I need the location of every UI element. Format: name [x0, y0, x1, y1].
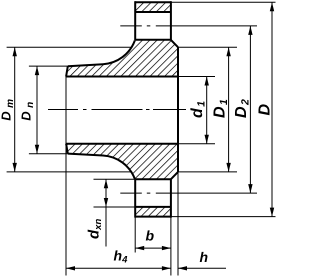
- disc right face lower: [170, 179, 172, 217]
- svg-text:D: D: [257, 104, 274, 116]
- bolt hole top axis dash-dot: [120, 25, 257, 27]
- flange outer edge top: [135, 1, 171, 3]
- Dn extension line top: [29, 65, 68, 67]
- bolt hole bottom: upper edge: [135, 178, 171, 180]
- dimension line Dm: [14, 47, 16, 172]
- arrow Dm down: [13, 163, 17, 172]
- hub weld-end bevel bottom: [66, 144, 68, 154]
- dxn extension line top: [94, 178, 136, 180]
- arrow h4 left: [66, 266, 75, 270]
- arrow h (outside, pointing left): [178, 266, 187, 270]
- bolt hole bottom axis dash-dot: [120, 192, 257, 194]
- arrow D2 down: [248, 184, 252, 193]
- arrow D1 down: [226, 163, 230, 172]
- arrow Dm up: [13, 47, 17, 56]
- arrow Dn down: [35, 145, 39, 154]
- hatch: lower hub/disc section zone: [66, 144, 178, 180]
- dimension line h tail: [178, 267, 226, 269]
- h right extension line: [177, 172, 179, 276]
- raised face chamfer top: [171, 40, 178, 47]
- hatch: top rim band between flange OD and bolt hole: [135, 2, 171, 12]
- Dn extension line bottom: [29, 153, 68, 155]
- bolt hole top: lower edge: [135, 39, 171, 41]
- dimension line Dn: [36, 66, 38, 154]
- D1 extension line bottom: [178, 171, 237, 173]
- raised face chamfer bottom: [171, 172, 178, 179]
- dimension line dxn: [105, 179, 107, 246]
- d1 extension line bottom: [178, 143, 215, 145]
- h4 right / b right extension line: [170, 217, 172, 276]
- arrow d1 up: [205, 77, 209, 86]
- hub outer surface bottom + fillet to disc: [68, 154, 135, 180]
- D extension line bottom: [171, 216, 276, 218]
- arrow dxn down: [104, 198, 108, 207]
- main centerline (dash-dot axis): [48, 109, 186, 111]
- arrow D up: [270, 2, 274, 11]
- dxn extension line bottom: [94, 206, 136, 208]
- dimension line D1: [228, 47, 230, 172]
- bolt hole top: upper edge: [135, 11, 171, 13]
- arrow D1 up: [226, 47, 230, 56]
- svg-text:h: h: [200, 249, 209, 265]
- hatch: upper hub/disc section zone: [66, 40, 178, 77]
- bolt hole bottom: lower edge: [135, 206, 171, 208]
- svg-text:b: b: [146, 228, 155, 244]
- arrow b right: [162, 246, 171, 250]
- raised face right face: [177, 47, 179, 172]
- hub weld-end bevel top: [66, 66, 68, 76]
- b left extension line: [134, 217, 136, 253]
- dimension line b: [135, 247, 171, 249]
- disc right face upper: [170, 1, 172, 40]
- D1 extension line top: [178, 46, 237, 48]
- bore line bottom: [66, 143, 178, 145]
- dimension line D: [271, 2, 273, 216]
- flange outer edge bottom: [135, 216, 171, 218]
- disc left face lower: [134, 179, 136, 217]
- d1 extension line top: [178, 76, 215, 78]
- arrow b left: [135, 246, 144, 250]
- h4 left extension line: [65, 77, 67, 276]
- arrow D2 up: [248, 26, 252, 35]
- arrow D down: [270, 208, 274, 217]
- arrow Dn up: [35, 66, 39, 75]
- arrow dxn up: [104, 179, 108, 188]
- dimension line h4: [66, 267, 171, 269]
- hub outer surface top + fillet to disc: [68, 40, 135, 66]
- dimension line D2: [249, 26, 251, 193]
- Dm extension line bottom: [7, 171, 131, 173]
- hatch: bottom rim band between bolt hole and flange OD: [135, 207, 171, 217]
- Dm extension line top: [7, 46, 131, 48]
- arrow d1 down: [205, 135, 209, 144]
- bore line top: [66, 76, 178, 78]
- dimension line d1: [206, 77, 208, 144]
- arrow h4 right: [162, 266, 171, 270]
- D extension line top: [171, 1, 276, 3]
- disc left face upper: [134, 1, 136, 40]
